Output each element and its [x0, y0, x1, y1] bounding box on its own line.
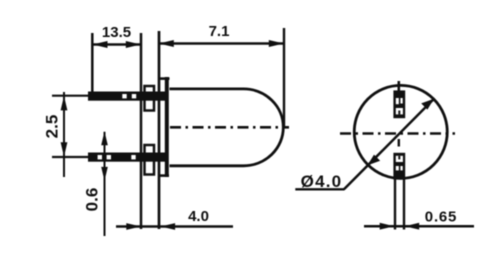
- upper electrode block: [393, 90, 405, 118]
- front view circle: [354, 85, 447, 178]
- flange right edge / body left: [165, 77, 169, 177]
- dimension line 13.5: [92, 43, 141, 46]
- arrowhead left of 13.5: [93, 41, 108, 48]
- tick on upper lead centerline for 2.5 dim: [52, 95, 89, 97]
- front view vertical centerline upper stub: [397, 81, 400, 91]
- arrowhead down of 2.5: [61, 142, 68, 157]
- white dot 2 upper lead: [132, 94, 136, 98]
- dimension line 0.6 vertical: [104, 132, 106, 236]
- white dot 3 lower lead: [131, 155, 135, 159]
- svg-text:4.0: 4.0: [188, 208, 209, 225]
- arrowhead pointing left at 0.65 right ext: [405, 223, 420, 230]
- arrowhead left of 7.1: [159, 40, 174, 47]
- pin entry rectangle lower: [145, 145, 155, 175]
- upper lead bar: [88, 92, 169, 101]
- arrowhead right of 13.5: [126, 41, 141, 48]
- extension line left of 13.5 dim: [91, 33, 94, 92]
- centerline of side view (dash-dot): [170, 126, 289, 129]
- svg-text:0.65: 0.65: [425, 209, 457, 226]
- flange top edge: [159, 77, 170, 80]
- arrowhead pointing right at 4.0 left ext: [126, 223, 141, 230]
- flange bottom edge: [160, 174, 169, 177]
- extension line: flange left edge shared by 7.1 and 4.0 dims: [158, 31, 161, 229]
- dimension line 4.0: [116, 225, 233, 228]
- leader shelf line: [295, 188, 344, 190]
- arrowhead lower left on circle: [367, 155, 380, 166]
- arrowhead up of 2.5: [61, 96, 68, 111]
- diameter leader diagonal line: [344, 99, 434, 190]
- lower lead bar: [88, 153, 169, 162]
- arrowhead up tip of 0.6: [101, 131, 108, 145]
- svg-text:2.5: 2.5: [43, 115, 62, 139]
- dimension line 7.1: [159, 42, 284, 45]
- white dot 2 lower lead: [107, 155, 111, 159]
- extension line right of 13.5 dim / left of 4.0 dim: [140, 33, 143, 229]
- lower electrode block: [393, 153, 405, 180]
- front view horizontal centerline: [340, 132, 455, 135]
- svg-text:Ø4.0: Ø4.0: [301, 172, 343, 191]
- arrowhead right of 7.1: [269, 40, 284, 47]
- arrowhead upper right on circle: [421, 99, 434, 110]
- arrowhead pointing left at 4.0 right ext: [161, 223, 176, 230]
- white dot 1 lower lead: [98, 155, 102, 159]
- white dot 1 upper lead: [122, 94, 126, 98]
- arrowhead pointing right at 0.65 left ext: [380, 223, 395, 230]
- arrowhead down tip of 0.6: [101, 167, 108, 181]
- svg-text:0.6: 0.6: [83, 188, 102, 212]
- dimension line 2.5 vertical: [63, 92, 65, 177]
- svg-text:7.1: 7.1: [209, 23, 230, 40]
- front view vertical centerline middle stub: [398, 139, 400, 147]
- LED body outline with dome: [170, 89, 284, 166]
- 0.65 extension line left: [394, 179, 396, 230]
- extension line right of 7.1 dim at dome apex: [283, 28, 285, 126]
- svg-text:13.5: 13.5: [102, 24, 131, 41]
- 0.65 extension line right: [403, 179, 405, 230]
- pin entry rectangle upper: [145, 86, 155, 111]
- tick on lower lead centerline for 2.5 dim: [52, 156, 89, 158]
- dimension line 0.65: [364, 225, 474, 228]
